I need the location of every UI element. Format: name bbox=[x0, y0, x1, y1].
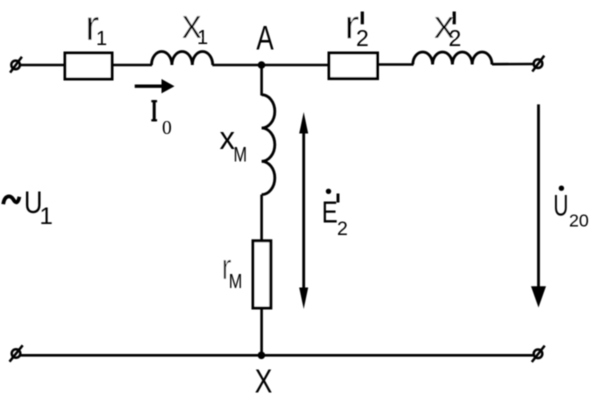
svg-text:A: A bbox=[256, 19, 274, 57]
wire bbox=[260, 195, 263, 240]
arrow E2 (double-headed) bbox=[299, 112, 308, 309]
svg-text:2: 2 bbox=[356, 25, 369, 51]
label xM bbox=[220, 120, 248, 166]
svg-text:2: 2 bbox=[337, 218, 348, 240]
label r2' bbox=[344, 2, 369, 52]
terminal bottom-right bbox=[532, 346, 545, 362]
label ~U1 bbox=[3, 184, 53, 230]
svg-text:0: 0 bbox=[162, 118, 172, 139]
label x2' bbox=[434, 3, 462, 51]
resistor r1 bbox=[65, 53, 112, 79]
terminal top-right bbox=[532, 56, 544, 72]
terminal top-left bbox=[10, 57, 22, 73]
wire bbox=[114, 64, 153, 67]
label x1 bbox=[182, 0, 208, 49]
arrow I0 bbox=[135, 79, 175, 93]
node X bbox=[258, 352, 266, 360]
inductor x1 bbox=[152, 52, 213, 65]
svg-text:20: 20 bbox=[569, 211, 589, 231]
terminal bottom-left bbox=[10, 345, 23, 361]
svg-text:X: X bbox=[255, 363, 273, 400]
label I0 bbox=[151, 100, 171, 139]
wire bbox=[260, 65, 263, 96]
label U20 bbox=[553, 186, 588, 231]
node A bbox=[258, 61, 266, 69]
label rM bbox=[222, 246, 243, 293]
svg-text:1: 1 bbox=[96, 28, 107, 50]
wire bbox=[212, 64, 329, 67]
inductor x2' bbox=[413, 52, 492, 65]
wire bbox=[260, 308, 263, 356]
svg-text:M: M bbox=[229, 271, 243, 293]
inductor xM bbox=[262, 95, 275, 195]
svg-text:M: M bbox=[234, 142, 248, 166]
label r1 bbox=[85, 2, 107, 50]
wire bbox=[492, 63, 534, 66]
svg-text:2: 2 bbox=[449, 25, 462, 51]
svg-text:U: U bbox=[553, 190, 568, 223]
wire bbox=[20, 64, 64, 67]
resistor r2' bbox=[329, 53, 378, 79]
label E2' bbox=[322, 189, 348, 240]
arrow U20 bbox=[531, 104, 546, 307]
wire bbox=[378, 63, 414, 66]
bottom wire bbox=[20, 354, 534, 357]
svg-text:1: 1 bbox=[197, 27, 208, 49]
svg-text:E: E bbox=[322, 195, 338, 230]
svg-text:1: 1 bbox=[40, 203, 53, 230]
resistor rM bbox=[253, 241, 271, 308]
